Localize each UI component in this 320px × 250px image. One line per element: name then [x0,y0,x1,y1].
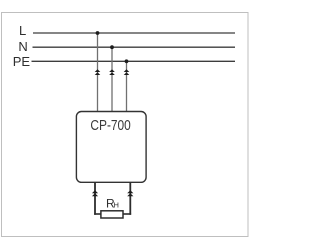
svg-text:CP-700: CP-700 [90,117,130,134]
svg-text:H: H [114,201,119,210]
svg-text:L: L [19,23,26,38]
svg-text:PE: PE [13,54,31,69]
svg-text:N: N [18,39,27,54]
